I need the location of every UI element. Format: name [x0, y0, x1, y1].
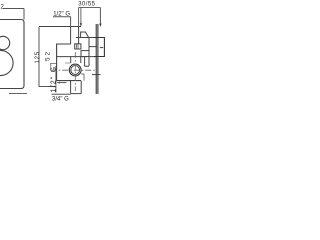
svg-text:3/4" G: 3/4" G	[52, 96, 69, 102]
svg-text:125: 125	[35, 51, 41, 63]
svg-text:30/55: 30/55	[78, 2, 95, 8]
svg-text:52: 52	[44, 50, 51, 61]
